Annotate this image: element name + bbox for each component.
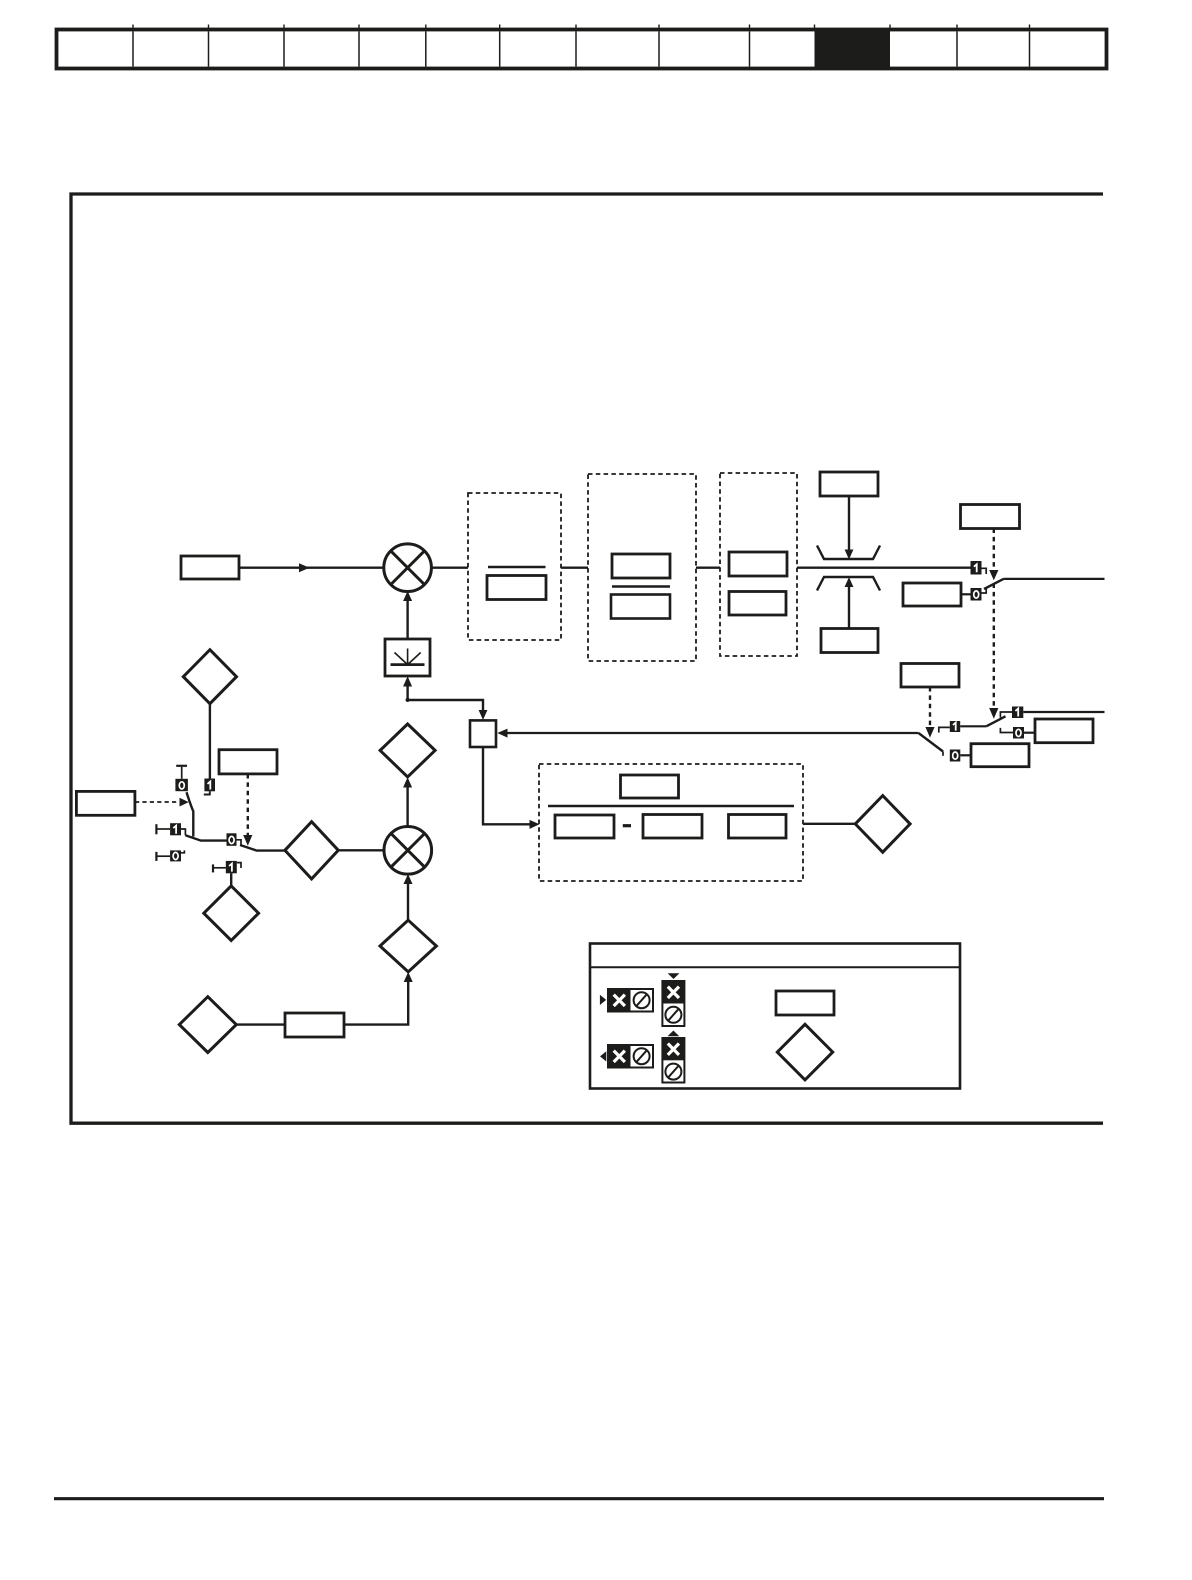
switch L3 contact tag 1 (unused) <box>213 861 241 873</box>
switch S1 blade <box>984 579 1004 589</box>
upper limit box <box>820 472 878 496</box>
legend read-only vertical pair <box>662 1038 684 1083</box>
diamond C (rate parameter) <box>380 920 436 972</box>
arrow into slew-rate box <box>403 676 412 686</box>
wire junction square to division block <box>483 747 530 824</box>
wire diamond B to lower box <box>236 1023 285 1025</box>
legend down arrow <box>668 973 680 979</box>
dashed control line continuing to S3 <box>993 584 995 709</box>
header selected tab (black cell 11) <box>815 31 891 68</box>
legend input arrow <box>600 995 606 1005</box>
wire node dot to junction square <box>408 700 483 711</box>
legend sample parameter box <box>776 991 834 1015</box>
switch S1 contact tag 1 <box>971 561 987 575</box>
dashed control line from control box to L1 <box>135 801 178 803</box>
switch S1 contact tag 0 <box>971 588 987 601</box>
block3 upper box <box>729 552 787 576</box>
wire S2-1 to S3 blade <box>960 725 986 727</box>
wire from right edge into S3-1 <box>1023 711 1104 713</box>
header tab table ticks <box>133 25 1030 30</box>
dashed block 1 (filter) <box>468 493 561 640</box>
dashed block 2 (transfer function) <box>588 474 696 661</box>
arrow into division block <box>530 820 540 829</box>
mode select control box <box>961 505 1020 529</box>
wire diamond C to M2 <box>407 884 409 921</box>
dashed control line to L3 <box>247 774 249 836</box>
switch L1 contact tag 1 <box>204 779 215 796</box>
wire M1 to dashed block 1 <box>431 567 468 569</box>
arrow into M2 from below <box>404 874 413 884</box>
parameter box at S2 position 0 <box>971 744 1029 767</box>
wire block1 to block2 <box>561 567 588 569</box>
switch S3 contact tag 1 <box>1000 707 1023 719</box>
legend read-write vertical pair <box>662 981 684 1026</box>
wire diamond G to L1 contact 1 <box>209 704 211 779</box>
arrow onto L3 blade <box>243 835 252 846</box>
arrow onto L1 blade <box>180 798 189 807</box>
arrow into diamond C <box>404 972 413 982</box>
division fraction bar <box>548 805 794 808</box>
wire S3-0 to parameter box <box>1024 732 1035 734</box>
junction square <box>470 720 496 747</box>
division numerator box <box>621 775 679 798</box>
wire lower box to diamond C <box>344 982 408 1025</box>
legend up arrow <box>668 1031 680 1037</box>
wire L3-1 tag to diamond A <box>230 873 232 886</box>
diagram frame (open on right side) <box>71 194 1103 1123</box>
control box for switch S2 <box>901 664 959 688</box>
wire input box to multiplier M1 <box>239 567 385 569</box>
lower parameter box <box>285 1013 344 1037</box>
switch S2 contact tag 0 <box>943 750 960 762</box>
header tab table outer border <box>57 30 1107 69</box>
block1 denominator box <box>487 576 546 600</box>
lower limit box <box>821 629 878 653</box>
arrow into junction square <box>497 729 507 738</box>
arrow into junction square top <box>479 710 488 720</box>
arrow into clamp from below <box>845 577 854 587</box>
block2 denominator box <box>611 595 670 619</box>
switch S3 blade <box>986 716 1005 726</box>
clamp lower jaw <box>817 577 880 591</box>
slew-rate limit box <box>385 639 430 676</box>
wire node dot to slew-rate box <box>406 686 408 700</box>
dashed control line to S1 <box>993 529 995 571</box>
arrow into diamond E <box>403 777 412 787</box>
arrow into clamp from above <box>845 550 854 560</box>
arrow on input wire <box>299 563 310 572</box>
arrow onto S3 blade <box>989 708 998 719</box>
diamond A (parameter) <box>204 886 259 941</box>
output wire from S1 to right edge <box>1004 578 1105 580</box>
denominator box 2 <box>643 815 702 839</box>
switch S3 contact tag 0 <box>1000 727 1024 739</box>
wire S2-0 to parameter box <box>960 754 971 756</box>
legend header divider <box>590 966 960 968</box>
switch L1 contact tag 0 <box>175 766 188 791</box>
dashed division block <box>539 764 803 881</box>
switch S2 contact tag 1 <box>939 721 960 733</box>
diamond E (scaling parameter) <box>380 724 435 777</box>
diamond D (scale select) <box>285 822 338 879</box>
feedback wire S2 to junction square <box>508 732 919 734</box>
wire block3 through clamp to switch S1 <box>797 567 971 569</box>
control box far left <box>76 791 134 815</box>
node dot <box>406 698 410 702</box>
denominator box 3 <box>729 815 787 839</box>
arrow onto S1 blade <box>989 570 998 580</box>
arrow into M1 <box>403 591 412 601</box>
legend read-write horizontal pair <box>608 989 653 1012</box>
block2 fraction bar <box>612 585 670 588</box>
wire block2 to block3 <box>696 567 720 569</box>
legend read-only horizontal pair <box>608 1045 653 1068</box>
block1 fraction bar <box>488 566 546 569</box>
multiplier M2 <box>384 827 432 875</box>
switch L1 blade and output wire <box>187 792 194 836</box>
dashed control line to S2 <box>929 687 931 728</box>
denominator box 1 <box>555 815 614 838</box>
control box above L3 <box>219 750 277 774</box>
wire diamond D to M2 <box>338 849 384 851</box>
switch L2 blade <box>185 835 226 840</box>
switch L3 contact tag 0 (center) <box>227 833 242 846</box>
block3 lower box <box>729 592 786 616</box>
slew-rate symbol bar <box>391 663 425 666</box>
arrow onto S2 blade <box>925 727 934 738</box>
parameter box at S3 position 0 <box>1035 719 1093 743</box>
dashed block 3 (gain stage) <box>720 473 797 656</box>
switch L3 blade to diamond D <box>240 845 285 851</box>
header tab table cell dividers <box>133 32 1030 67</box>
clamp upper jaw <box>817 546 880 560</box>
diamond B (source parameter) <box>179 997 236 1053</box>
legend output arrow <box>600 1051 606 1061</box>
block2 numerator box <box>612 554 670 578</box>
input box (reference parameter) <box>181 556 239 579</box>
switch L2 contact tag 0 (unused) <box>156 850 184 861</box>
multiplier M1 <box>384 544 432 592</box>
footer rule <box>54 1497 1104 1500</box>
wire slew-rate box to M1 <box>406 601 408 640</box>
wire upper limit box into clamp <box>848 496 850 550</box>
legend sample diamond <box>777 1024 832 1080</box>
diamond F (output parameter) <box>855 796 910 853</box>
slew-rate symbol rays <box>395 649 421 665</box>
switch S2 blade <box>919 733 944 752</box>
wire lower limit box into clamp <box>848 587 850 629</box>
legend box <box>590 944 960 1089</box>
wire division block to diamond F <box>803 823 855 825</box>
wire multiplier M2 to diamond E <box>406 787 408 827</box>
wire box to S1 "0" contact <box>961 593 971 595</box>
parameter box feeding S1 position 0 <box>903 583 961 606</box>
diamond G (select source, top left) <box>183 650 236 704</box>
switch L2 contact tag 1 <box>156 823 185 835</box>
minus sign <box>623 824 631 827</box>
